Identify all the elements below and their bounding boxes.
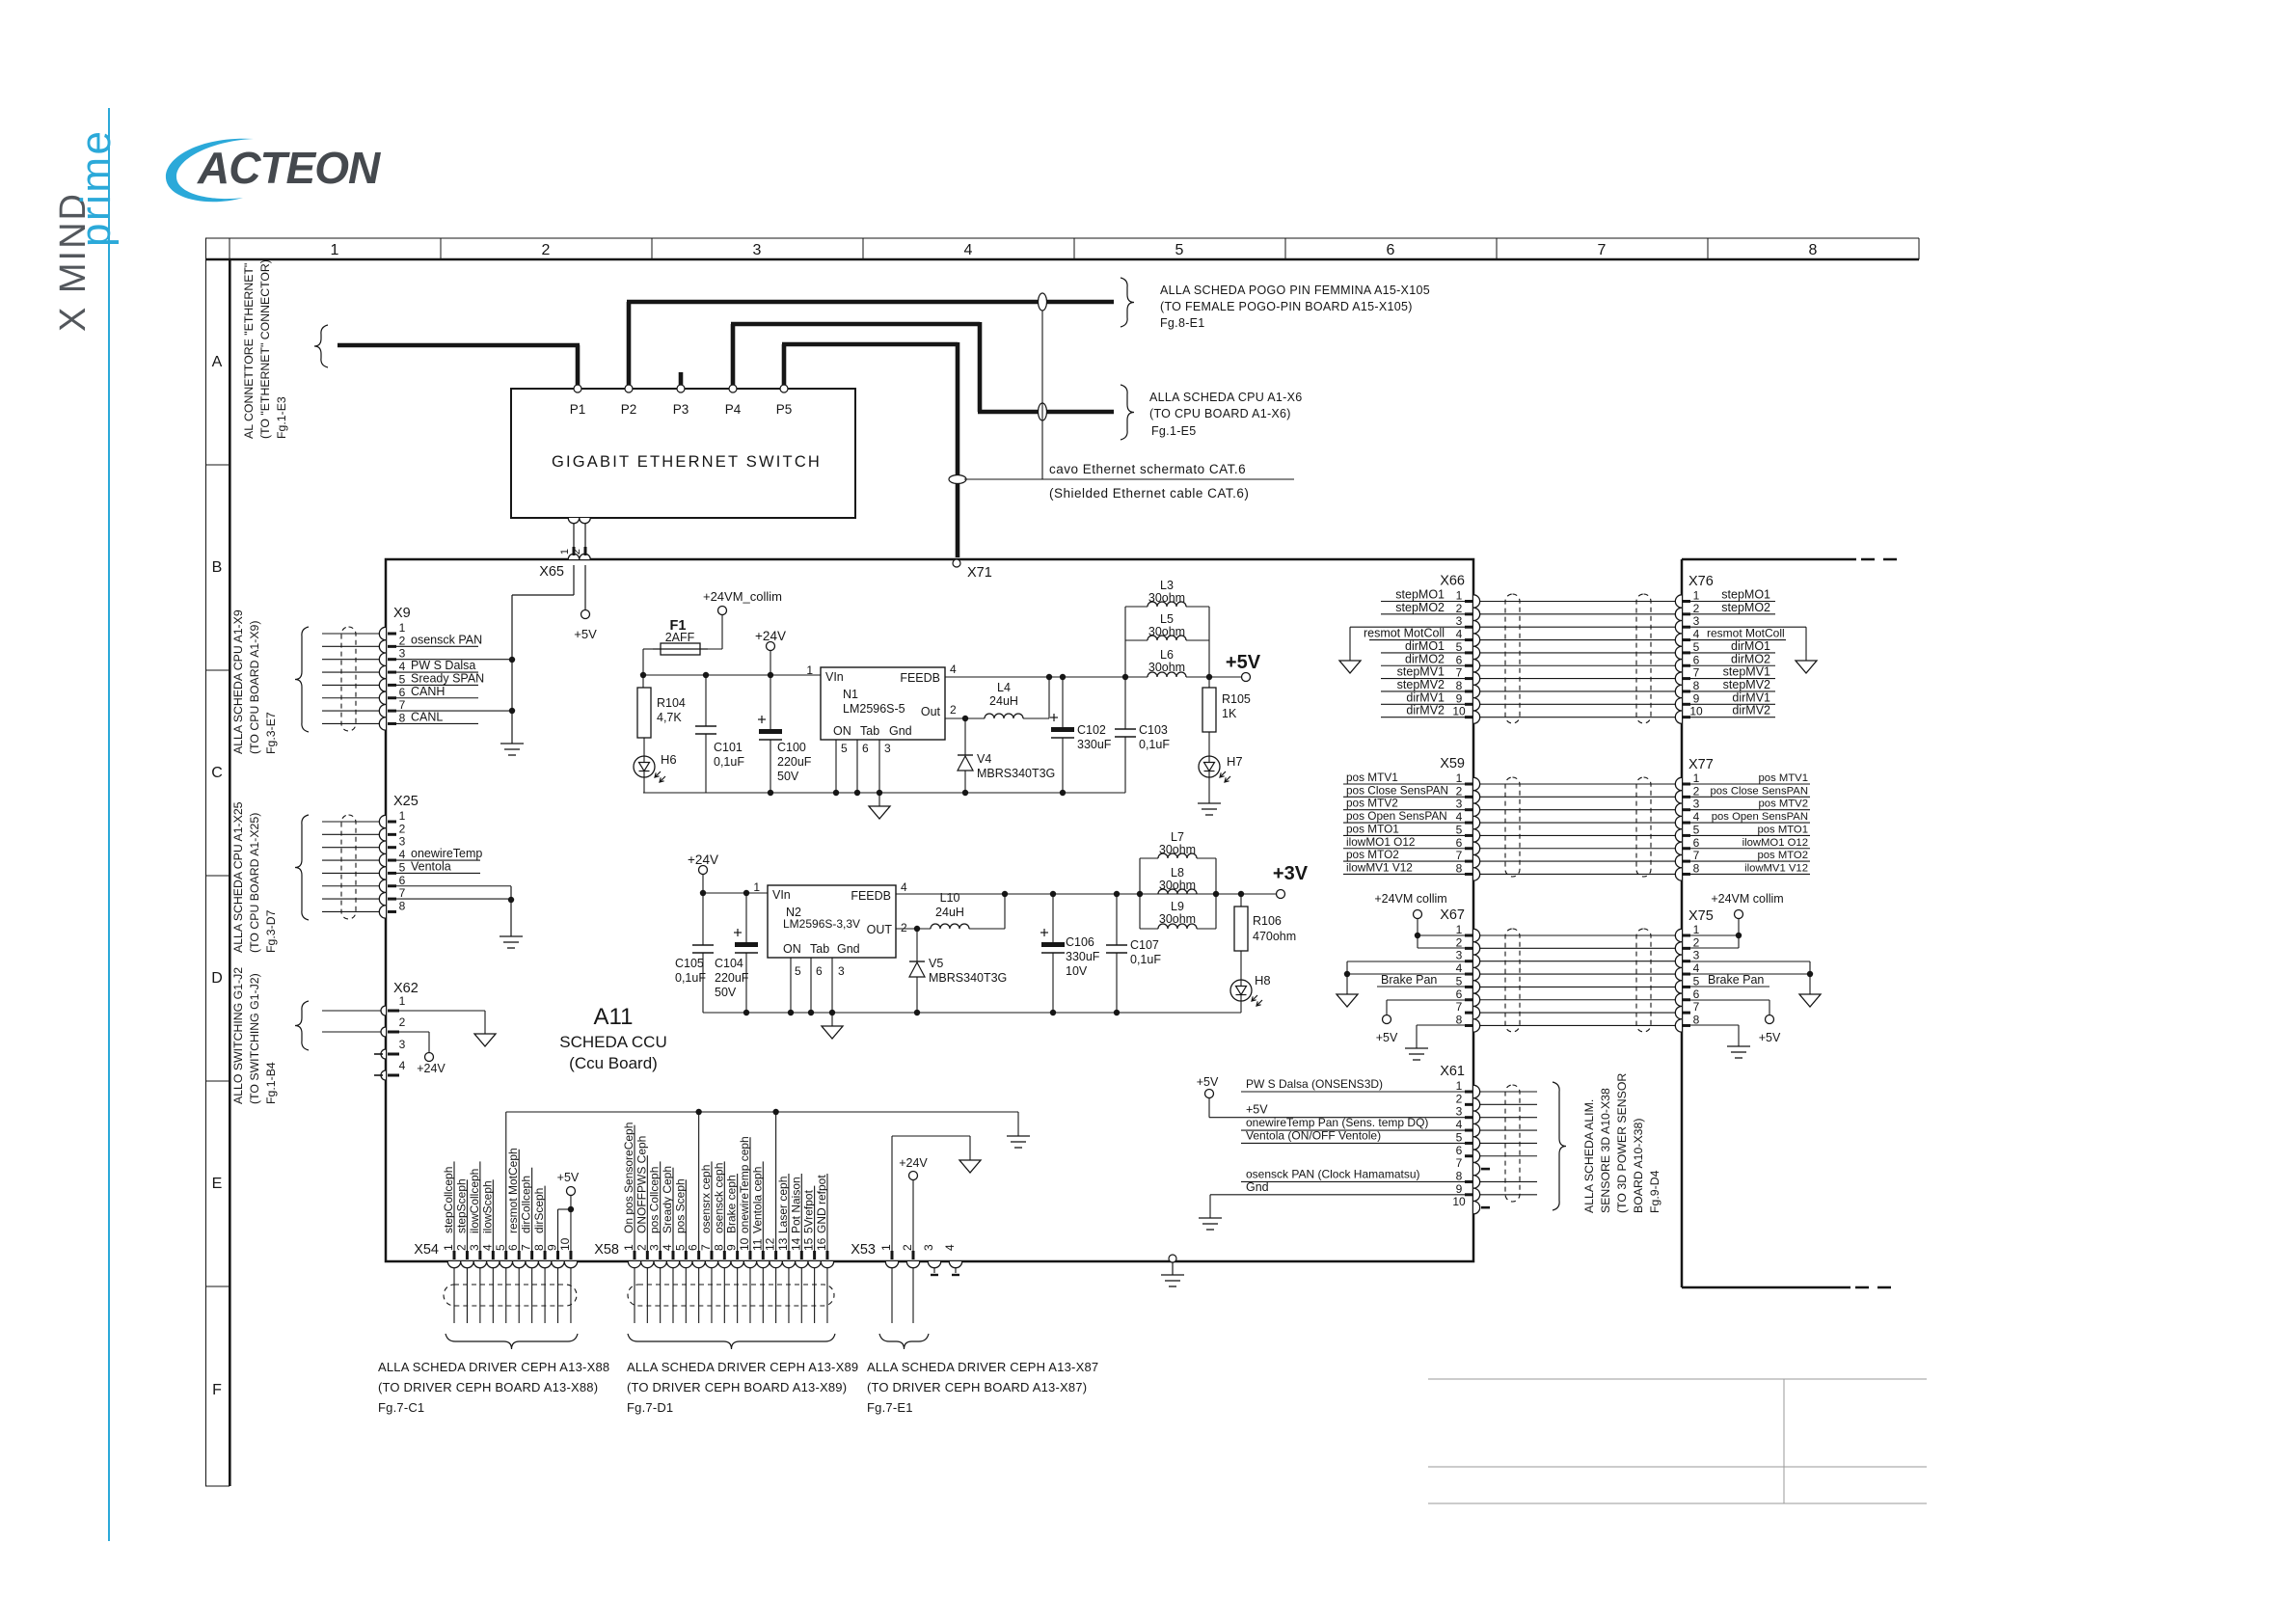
svg-text:(TO 3D POWER SENSOR: (TO 3D POWER SENSOR [1615, 1073, 1629, 1213]
svg-text:3: 3 [1693, 614, 1700, 628]
svg-text:1: 1 [753, 880, 760, 894]
svg-text:24uH: 24uH [935, 906, 964, 919]
svg-text:dirMO2: dirMO2 [1731, 652, 1770, 665]
svg-text:ACTEON: ACTEON [197, 143, 381, 193]
svg-text:4: 4 [399, 848, 406, 861]
svg-text:5: 5 [1693, 640, 1700, 654]
svg-text:ON: ON [783, 942, 801, 956]
svg-text:R106: R106 [1253, 914, 1282, 928]
svg-text:5: 5 [673, 1244, 687, 1251]
svg-text:ALLA SCHEDA ALIM.: ALLA SCHEDA ALIM. [1582, 1099, 1596, 1213]
svg-text:L10: L10 [940, 891, 960, 905]
svg-text:P1: P1 [570, 402, 586, 417]
svg-text:BOARD A10-X38): BOARD A10-X38) [1632, 1119, 1645, 1213]
svg-text:pos Close SensPAN: pos Close SensPAN [1346, 783, 1448, 797]
svg-text:+3V: +3V [1273, 863, 1309, 884]
svg-text:L7: L7 [1171, 830, 1184, 844]
svg-text:4: 4 [480, 1244, 494, 1251]
svg-text:4: 4 [1456, 1118, 1463, 1131]
svg-text:5: 5 [399, 860, 406, 874]
svg-text:ALLA SCHEDA DRIVER CEPH A13-X8: ALLA SCHEDA DRIVER CEPH A13-X89 [627, 1360, 858, 1374]
svg-text:1: 1 [331, 242, 339, 258]
svg-text:ilowMO1 O12: ilowMO1 O12 [1346, 835, 1415, 849]
svg-text:pos MTO2: pos MTO2 [1346, 848, 1399, 861]
svg-text:Laser ceph: Laser ceph [776, 1177, 790, 1233]
svg-text:onewireTemp Pan (Sens. temp DQ: onewireTemp Pan (Sens. temp DQ) [1246, 1116, 1428, 1129]
svg-text:stepMV2: stepMV2 [1723, 678, 1770, 691]
svg-text:5: 5 [1693, 823, 1700, 836]
svg-text:2: 2 [950, 703, 957, 717]
svg-text:+24VM collim: +24VM collim [1374, 892, 1446, 906]
svg-text:Ventola ceph: Ventola ceph [750, 1167, 764, 1233]
svg-text:X54: X54 [414, 1242, 439, 1258]
svg-text:ALLA SCHEDA CPU A1-X6: ALLA SCHEDA CPU A1-X6 [1149, 391, 1302, 404]
svg-text:dirMV2: dirMV2 [1732, 704, 1770, 717]
svg-text:D: D [211, 970, 223, 987]
svg-text:X76: X76 [1688, 574, 1714, 589]
svg-text:OUT: OUT [867, 923, 893, 936]
svg-text:SENSORE 3D A10-X38: SENSORE 3D A10-X38 [1599, 1088, 1612, 1213]
svg-text:4: 4 [1456, 810, 1463, 824]
svg-text:6: 6 [1456, 653, 1463, 666]
svg-text:3: 3 [468, 1244, 481, 1251]
svg-text:3: 3 [1456, 614, 1463, 628]
svg-text:GIGABIT ETHERNET SWITCH: GIGABIT ETHERNET SWITCH [552, 453, 822, 471]
svg-text:X66: X66 [1440, 574, 1465, 589]
svg-text:3: 3 [399, 835, 406, 849]
svg-text:X61: X61 [1440, 1064, 1465, 1079]
svg-text:CANH: CANH [411, 685, 445, 698]
svg-text:GND refpot: GND refpot [815, 1175, 828, 1233]
svg-text:6: 6 [1456, 1144, 1463, 1157]
svg-text:5: 5 [1456, 974, 1463, 988]
svg-text:ALLA SCHEDA POGO PIN FEMMINA A: ALLA SCHEDA POGO PIN FEMMINA A15-X105 [1160, 284, 1430, 297]
svg-text:7: 7 [1456, 1000, 1463, 1014]
svg-text:7: 7 [699, 1244, 713, 1251]
svg-text:330uF: 330uF [1077, 738, 1112, 751]
svg-text:+24V: +24V [417, 1062, 446, 1075]
svg-text:C: C [211, 765, 223, 781]
svg-text:stepMO2: stepMO2 [1721, 601, 1770, 614]
svg-text:Gnd: Gnd [1246, 1180, 1269, 1194]
svg-text:8: 8 [1693, 861, 1700, 875]
svg-text:30ohm: 30ohm [1148, 591, 1185, 605]
svg-text:L4: L4 [997, 681, 1011, 694]
svg-text:5: 5 [1693, 974, 1700, 988]
svg-text:2: 2 [1456, 602, 1463, 615]
svg-text:C101: C101 [714, 741, 743, 754]
svg-text:6: 6 [399, 686, 406, 699]
svg-text:resmot MotCeph: resmot MotCeph [506, 1148, 520, 1233]
svg-text:7: 7 [1693, 1000, 1700, 1014]
svg-text:1: 1 [1456, 589, 1463, 603]
svg-text:+5V: +5V [1246, 1103, 1268, 1117]
svg-text:ALLA SCHEDA CPU A1-X9: ALLA SCHEDA CPU A1-X9 [231, 609, 245, 754]
svg-text:P4: P4 [725, 402, 742, 417]
svg-text:7: 7 [1456, 849, 1463, 862]
svg-text:470ohm: 470ohm [1253, 930, 1296, 943]
svg-text:Ventola (ON/OFF Ventole): Ventola (ON/OFF Ventole) [1246, 1128, 1381, 1142]
svg-text:2: 2 [901, 921, 907, 934]
svg-text:8: 8 [1809, 242, 1818, 258]
svg-text:LM2596S-3,3V: LM2596S-3,3V [783, 917, 860, 931]
svg-text:Fg.7-E1: Fg.7-E1 [867, 1400, 913, 1415]
svg-text:pos MTO2: pos MTO2 [1757, 850, 1808, 861]
svg-text:+24V: +24V [899, 1156, 928, 1170]
svg-text:Pot Naison: Pot Naison [789, 1177, 802, 1233]
svg-text:(TO DRIVER CEPH BOARD A13-X88): (TO DRIVER CEPH BOARD A13-X88) [378, 1380, 598, 1394]
svg-text:1: 1 [622, 1244, 635, 1251]
svg-text:8: 8 [532, 1244, 546, 1251]
svg-text:6: 6 [1693, 836, 1700, 850]
svg-text:4: 4 [399, 660, 406, 673]
svg-text:8: 8 [1693, 1013, 1700, 1026]
svg-text:Brake Pan: Brake Pan [1708, 973, 1764, 987]
svg-text:N1: N1 [843, 688, 858, 701]
svg-text:P2: P2 [621, 402, 637, 417]
svg-text:P5: P5 [776, 402, 793, 417]
svg-text:resmot MotColl: resmot MotColl [1707, 627, 1785, 640]
svg-text:stepSceph: stepSceph [454, 1178, 468, 1233]
svg-text:(TO CPU BOARD A1-X25): (TO CPU BOARD A1-X25) [248, 813, 261, 953]
svg-text:5: 5 [841, 742, 848, 755]
svg-text:Gnd: Gnd [889, 724, 912, 738]
svg-text:6: 6 [1693, 653, 1700, 666]
svg-text:A: A [212, 354, 223, 370]
svg-text:X71: X71 [967, 565, 992, 581]
svg-text:3: 3 [838, 964, 845, 978]
svg-text:MBRS340T3G: MBRS340T3G [929, 971, 1007, 985]
svg-text:1: 1 [1456, 1079, 1463, 1093]
svg-text:X65: X65 [539, 564, 564, 580]
svg-text:30ohm: 30ohm [1159, 843, 1196, 856]
svg-text:LM2596S-5: LM2596S-5 [843, 702, 905, 716]
svg-text:6: 6 [862, 742, 869, 755]
svg-text:8: 8 [399, 899, 406, 912]
svg-text:1: 1 [1456, 771, 1463, 785]
svg-text:1: 1 [1693, 923, 1700, 936]
svg-text:7: 7 [399, 698, 406, 712]
svg-text:pos Close SensPAN: pos Close SensPAN [1710, 785, 1808, 797]
svg-text:(TO FEMALE POGO-PIN BOARD A15-: (TO FEMALE POGO-PIN BOARD A15-X105) [1160, 300, 1413, 313]
svg-text:Brake ceph: Brake ceph [725, 1175, 739, 1233]
svg-text:stepMV1: stepMV1 [1397, 665, 1445, 679]
svg-text:4: 4 [964, 242, 973, 258]
svg-text:4,7K: 4,7K [657, 711, 682, 724]
svg-text:6: 6 [687, 1244, 700, 1251]
svg-text:2: 2 [542, 242, 551, 258]
svg-text:dirMO2: dirMO2 [1405, 652, 1445, 665]
svg-text:13: 13 [776, 1237, 790, 1251]
svg-text:1: 1 [1693, 589, 1700, 603]
svg-text:(TO DRIVER CEPH BOARD A13-X87): (TO DRIVER CEPH BOARD A13-X87) [867, 1380, 1087, 1394]
svg-text:6: 6 [1456, 988, 1463, 1001]
svg-text:dirCollceph: dirCollceph [520, 1176, 533, 1233]
svg-text:(TO CPU BOARD A1-X9): (TO CPU BOARD A1-X9) [248, 621, 261, 754]
svg-text:6: 6 [1693, 988, 1700, 1001]
svg-text:7: 7 [1693, 849, 1700, 862]
svg-text:2AFF: 2AFF [665, 631, 695, 644]
svg-text:1: 1 [806, 663, 813, 677]
svg-text:7: 7 [1598, 242, 1607, 258]
svg-text:3: 3 [1456, 798, 1463, 811]
svg-text:+24V: +24V [688, 853, 718, 867]
svg-text:10V: 10V [1066, 964, 1088, 978]
svg-text:(Shielded Ethernet cable CAT.6: (Shielded Ethernet cable CAT.6) [1049, 486, 1249, 501]
svg-text:9: 9 [1456, 691, 1463, 705]
svg-text:8: 8 [1456, 1169, 1463, 1182]
svg-text:Fg.3-E7: Fg.3-E7 [264, 712, 278, 754]
svg-text:osensrx ceph: osensrx ceph [699, 1165, 713, 1233]
svg-text:7: 7 [1456, 666, 1463, 680]
svg-text:stepMO2: stepMO2 [1395, 601, 1445, 614]
svg-text:+24VM_collim: +24VM_collim [703, 589, 782, 604]
svg-text:30ohm: 30ohm [1148, 625, 1185, 638]
svg-text:4: 4 [399, 1059, 406, 1072]
svg-text:pos MTV1: pos MTV1 [1346, 771, 1398, 784]
svg-text:stepMV2: stepMV2 [1397, 678, 1445, 691]
svg-text:4: 4 [950, 663, 957, 676]
svg-text:SCHEDA CCU: SCHEDA CCU [559, 1033, 666, 1051]
svg-text:4: 4 [1456, 961, 1463, 975]
svg-text:C107: C107 [1130, 938, 1159, 952]
svg-text:X77: X77 [1688, 757, 1714, 772]
svg-text:4: 4 [1456, 628, 1463, 641]
svg-text:dirMV2: dirMV2 [1406, 704, 1445, 717]
svg-text:(TO SWITCHING G1-J2): (TO SWITCHING G1-J2) [248, 973, 261, 1104]
svg-text:Ventola: Ventola [411, 859, 451, 873]
svg-text:pos Collceph: pos Collceph [648, 1167, 662, 1233]
svg-text:pos Sceph: pos Sceph [673, 1178, 687, 1233]
svg-text:C106: C106 [1066, 935, 1094, 949]
svg-text:V5: V5 [929, 957, 943, 970]
svg-text:C103: C103 [1139, 723, 1168, 737]
svg-text:R105: R105 [1222, 692, 1251, 706]
svg-text:ALLO SWITCHING G1-J2: ALLO SWITCHING G1-J2 [231, 967, 245, 1104]
svg-text:Fg.1-E5: Fg.1-E5 [1151, 424, 1197, 438]
svg-text:10: 10 [1689, 705, 1703, 718]
svg-text:A11: A11 [594, 1004, 634, 1030]
svg-text:+5V: +5V [1376, 1031, 1398, 1044]
svg-text:AL CONNETTORE "ETHERNET": AL CONNETTORE "ETHERNET" [242, 263, 256, 439]
svg-text:16: 16 [815, 1237, 828, 1251]
svg-text:6: 6 [399, 874, 406, 887]
svg-text:+24V: +24V [755, 629, 786, 643]
svg-text:3: 3 [648, 1244, 662, 1251]
svg-text:2: 2 [1456, 935, 1463, 949]
svg-text:2: 2 [399, 1015, 406, 1029]
svg-text:VIn: VIn [772, 888, 791, 902]
svg-text:2: 2 [901, 1244, 914, 1251]
svg-text:dirMV1: dirMV1 [1732, 690, 1770, 704]
svg-text:PW S Dalsa: PW S Dalsa [411, 659, 475, 672]
svg-text:prime: prime [72, 128, 120, 247]
svg-text:E: E [212, 1176, 223, 1192]
svg-text:H8: H8 [1255, 973, 1271, 988]
svg-text:24uH: 24uH [989, 694, 1018, 708]
svg-text:6: 6 [1387, 242, 1395, 258]
svg-text:On pos SensoreCeph: On pos SensoreCeph [622, 1123, 635, 1233]
svg-text:Fg.9-D4: Fg.9-D4 [1648, 1170, 1661, 1213]
svg-text:220uF: 220uF [715, 971, 749, 985]
svg-text:R104: R104 [657, 696, 686, 710]
svg-text:0,1uF: 0,1uF [675, 971, 706, 985]
svg-text:+5V: +5V [557, 1171, 580, 1184]
svg-text:ilowMV1 V12: ilowMV1 V12 [1346, 860, 1413, 874]
svg-text:+5V: +5V [1197, 1075, 1219, 1089]
svg-text:stepMV1: stepMV1 [1723, 665, 1770, 679]
svg-text:4: 4 [1693, 628, 1700, 641]
svg-text:3: 3 [884, 742, 891, 755]
svg-text:F: F [212, 1382, 222, 1398]
svg-text:4: 4 [1693, 810, 1700, 824]
svg-text:3: 3 [1693, 798, 1700, 811]
svg-text:X9: X9 [393, 606, 411, 621]
svg-text:X53: X53 [851, 1242, 876, 1258]
svg-text:3: 3 [1693, 949, 1700, 962]
svg-text:X59: X59 [1440, 756, 1465, 771]
svg-text:5: 5 [1456, 640, 1463, 654]
svg-text:1: 1 [1456, 923, 1463, 936]
svg-text:P3: P3 [673, 402, 689, 417]
svg-text:X75: X75 [1688, 908, 1714, 924]
svg-text:H6: H6 [661, 752, 677, 767]
svg-text:3: 3 [399, 647, 406, 661]
svg-text:dirMO1: dirMO1 [1731, 639, 1770, 653]
svg-text:2: 2 [1456, 784, 1463, 798]
svg-text:3: 3 [399, 1038, 406, 1051]
svg-text:Fg.7-C1: Fg.7-C1 [378, 1400, 424, 1415]
svg-text:ilowCollceph: ilowCollceph [468, 1169, 481, 1233]
svg-text:+5V: +5V [1759, 1031, 1781, 1044]
svg-text:(Ccu Board): (Ccu Board) [569, 1054, 658, 1072]
svg-text:0,1uF: 0,1uF [1130, 953, 1161, 966]
svg-text:Gnd: Gnd [837, 942, 860, 956]
svg-text:2: 2 [399, 634, 406, 647]
svg-text:MBRS340T3G: MBRS340T3G [977, 767, 1055, 780]
svg-text:14: 14 [789, 1237, 802, 1251]
svg-text:ilowMO1 O12: ilowMO1 O12 [1742, 837, 1808, 849]
svg-text:4: 4 [943, 1244, 957, 1251]
svg-text:osensck PAN (Clock Hamamatsu): osensck PAN (Clock Hamamatsu) [1246, 1167, 1420, 1180]
svg-text:2: 2 [1693, 935, 1700, 949]
svg-text:7: 7 [520, 1244, 533, 1251]
svg-text:50V: 50V [777, 770, 799, 783]
svg-text:Fg.3-D7: Fg.3-D7 [264, 909, 278, 953]
svg-text:5: 5 [399, 672, 406, 686]
svg-text:L3: L3 [1160, 579, 1174, 592]
svg-text:Fg.1-E3: Fg.1-E3 [275, 396, 288, 439]
svg-text:1: 1 [399, 809, 406, 823]
svg-text:(TO CPU BOARD A1-X6): (TO CPU BOARD A1-X6) [1149, 407, 1291, 420]
svg-text:C100: C100 [777, 741, 806, 754]
svg-text:2: 2 [1693, 602, 1700, 615]
svg-text:onewireTemp ceph: onewireTemp ceph [738, 1136, 751, 1233]
svg-text:X25: X25 [393, 794, 419, 809]
svg-text:Tab: Tab [810, 942, 829, 956]
svg-text:5: 5 [795, 964, 801, 978]
svg-text:Brake Pan: Brake Pan [1381, 973, 1437, 987]
svg-text:1: 1 [442, 1244, 455, 1251]
svg-text:1: 1 [399, 621, 406, 635]
svg-text:+24VM collim: +24VM collim [1711, 892, 1783, 906]
svg-text:dirMO1: dirMO1 [1405, 639, 1445, 653]
svg-text:1: 1 [879, 1244, 893, 1251]
svg-text:8: 8 [1456, 861, 1463, 875]
svg-text:Sready SPAN: Sready SPAN [411, 671, 484, 685]
svg-text:ALLA SCHEDA CPU A1-X25: ALLA SCHEDA CPU A1-X25 [231, 801, 245, 953]
svg-text:4: 4 [901, 880, 907, 894]
svg-text:(TO "ETHERNET" CONNECTOR): (TO "ETHERNET" CONNECTOR) [258, 259, 272, 439]
svg-text:5: 5 [1456, 1130, 1463, 1144]
svg-text:6: 6 [1456, 836, 1463, 850]
svg-text:stepMO1: stepMO1 [1395, 588, 1445, 602]
svg-text:7: 7 [399, 886, 406, 900]
svg-text:FEEDB: FEEDB [851, 889, 891, 903]
svg-text:0,1uF: 0,1uF [1139, 738, 1170, 751]
svg-text:V4: V4 [977, 752, 991, 766]
svg-text:X58: X58 [594, 1242, 619, 1258]
svg-text:+5V: +5V [1226, 652, 1261, 673]
svg-text:CANL: CANL [411, 710, 443, 723]
svg-text:0,1uF: 0,1uF [714, 755, 744, 769]
svg-text:osensck ceph: osensck ceph [712, 1163, 725, 1233]
svg-text:pos MTV2: pos MTV2 [1346, 797, 1398, 810]
svg-text:+5V: +5V [574, 627, 597, 641]
svg-text:8: 8 [1456, 679, 1463, 692]
svg-text:5: 5 [494, 1244, 507, 1251]
svg-text:ONOFFPWS Ceph: ONOFFPWS Ceph [635, 1136, 648, 1233]
svg-text:3: 3 [1456, 949, 1463, 962]
svg-text:50V: 50V [715, 986, 737, 999]
svg-text:Fg.1-B4: Fg.1-B4 [264, 1062, 278, 1104]
svg-text:X67: X67 [1440, 907, 1465, 923]
svg-text:30ohm: 30ohm [1148, 661, 1185, 674]
svg-text:3: 3 [753, 242, 762, 258]
svg-text:10: 10 [1452, 705, 1466, 718]
svg-text:8: 8 [1693, 679, 1700, 692]
svg-text:30ohm: 30ohm [1159, 912, 1196, 926]
svg-text:stepMO1: stepMO1 [1721, 588, 1770, 602]
svg-text:7: 7 [1693, 666, 1700, 680]
svg-text:8: 8 [399, 711, 406, 724]
svg-text:H7: H7 [1227, 754, 1243, 769]
svg-text:9: 9 [1456, 1182, 1463, 1196]
svg-text:ALLA SCHEDA DRIVER CEPH A13-X8: ALLA SCHEDA DRIVER CEPH A13-X88 [378, 1360, 609, 1374]
svg-text:2: 2 [1693, 784, 1700, 798]
svg-text:resmot MotColl: resmot MotColl [1364, 627, 1445, 640]
svg-text:Tab: Tab [860, 724, 879, 738]
svg-text:pos MTO1: pos MTO1 [1757, 824, 1808, 835]
svg-text:ALLA SCHEDA DRIVER CEPH A13-X8: ALLA SCHEDA DRIVER CEPH A13-X87 [867, 1360, 1098, 1374]
svg-text:L9: L9 [1171, 900, 1184, 913]
svg-text:dirSceph: dirSceph [532, 1188, 546, 1233]
svg-text:2: 2 [1456, 1092, 1463, 1105]
svg-text:L6: L6 [1160, 648, 1174, 662]
svg-text:1K: 1K [1222, 707, 1237, 720]
svg-text:C104: C104 [715, 957, 743, 970]
svg-text:onewireTemp: onewireTemp [411, 847, 482, 860]
svg-text:330uF: 330uF [1066, 950, 1100, 963]
svg-text:L5: L5 [1160, 612, 1174, 626]
svg-text:10: 10 [558, 1237, 572, 1251]
svg-text:cavo Ethernet schermato CAT.6: cavo Ethernet schermato CAT.6 [1049, 462, 1246, 476]
svg-text:pos MTV2: pos MTV2 [1759, 798, 1808, 810]
svg-text:C102: C102 [1077, 723, 1106, 737]
svg-text:Sready Ceph: Sready Ceph [661, 1166, 674, 1233]
svg-text:6: 6 [816, 964, 823, 978]
svg-text:Fg.8-E1: Fg.8-E1 [1160, 316, 1205, 330]
